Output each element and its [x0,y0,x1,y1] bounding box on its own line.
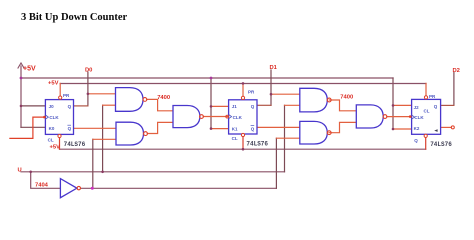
svg-text:3 Bit Up Down Counter: 3 Bit Up Down Counter [21,12,128,23]
svg-text:J1: J1 [232,104,238,109]
wire J2 stub [393,104,412,106]
svg-text:+5V: +5V [23,65,36,72]
wire J0 [21,105,45,107]
wire CL rail y149.2 [60,148,426,150]
svg-text:74LS76: 74LS76 [246,141,268,148]
wire Q1 [257,104,271,106]
wire PR stub FF3 [425,83,427,96]
svg-text:J0: J0 [49,104,55,109]
nand gate stage3 bottom [300,121,331,144]
wire PR rail y83.4 [60,83,426,85]
svg-text:+5V: +5V [48,81,59,87]
wire U vert stage2 [102,105,104,172]
svg-text:K1: K1 [232,126,238,131]
svg-text:PR: PR [63,93,70,98]
wire K0 [21,126,45,128]
wire gate B2 stage3 input [276,137,299,139]
svg-text:K0: K0 [49,126,55,131]
svg-text:7400: 7400 [340,95,353,101]
wire U vert stage3 [284,105,286,172]
wire U rail y171.8 [21,171,285,173]
nand gate stage3 combiner [356,105,387,128]
svg-text:CLK: CLK [49,115,59,120]
node D2 vertical [453,73,455,106]
wire Q0bar [74,127,117,129]
svg-text:Q: Q [68,104,72,109]
svg-text:CL: CL [424,108,430,113]
svg-text:J2: J2 [414,105,420,110]
svg-text:Q: Q [251,126,255,131]
wire Q2bar [441,126,452,128]
flipflop U1 74LS76 [43,93,86,150]
wire nand1 top output [147,99,173,110]
svg-text:Q: Q [414,138,418,143]
wire PR stub FF1 [59,83,61,95]
wire K1 stub [211,128,229,130]
wire JK vert FF2 [210,78,212,129]
wire nand2 top output [329,100,356,111]
svg-text:7400: 7400 [157,95,170,101]
power +5V symbol top-left [18,63,24,127]
svg-text:PR: PR [429,94,436,99]
wire U drop to inverter [31,172,61,189]
wire JK rail y78 [21,77,393,79]
wire CL stub FF3 [425,138,427,150]
wire nand1 low output [147,122,173,133]
wire gate A1 stage3 input [271,93,300,95]
svg-text:7404: 7404 [35,182,49,188]
wire Q0 [74,105,88,107]
svg-text:Q: Q [68,126,72,131]
svg-text:D0: D0 [85,67,92,73]
svg-text:+5V: +5V [50,144,61,150]
svg-text:CLK: CLK [233,115,243,120]
nand gate stage2 top 7400 [116,88,147,112]
svg-text:CL: CL [232,136,238,141]
wire clk3 from combiner [387,116,412,118]
wire clk2 from combiner [203,116,228,118]
wire gate A1 input [88,93,116,95]
svg-text:74LS76: 74LS76 [430,141,452,148]
svg-text:D1: D1 [270,65,278,71]
nand gate stage2 bottom [116,122,147,145]
svg-text:CLK: CLK [414,115,424,120]
svg-text:CL: CL [48,138,54,143]
wire gate B1 input [103,104,116,106]
svg-text:74LS76: 74LS76 [64,141,86,148]
wire CL stub FF1 [59,138,61,150]
svg-text:Q: Q [434,104,438,109]
wire Q2 [441,104,454,106]
pin open circle Q2bar [451,126,454,129]
inverter 7404 [60,179,80,198]
wire Q1bar [257,126,300,128]
wire PR stub FF2 [242,83,244,96]
svg-text:D2: D2 [453,68,460,74]
wire J1 stub [211,105,229,107]
wire Ubar rail y188.3 [81,187,277,189]
wire JK vert FF3 [392,78,394,129]
nand gate stage2 combiner [173,106,203,128]
svg-text:PR: PR [248,90,255,95]
svg-text:K2: K2 [414,126,420,131]
wire Ubar vert stage2 [92,139,94,188]
nand gate stage3 top 7400 [300,88,331,112]
wire gate B2 input [93,138,116,140]
wire gate B1 stage3 input [285,104,300,106]
wire Ubar vert stage3 [275,138,277,188]
wire nand2 low output [329,122,356,132]
node D0 vertical [87,72,89,106]
wire K2 stub [393,128,412,130]
flipflop U2 74LS76 [226,90,269,148]
svg-text:U: U [18,167,22,173]
wire CL stub FF2 [242,137,244,150]
wire CLK input [10,117,45,138]
flipflop U3 74LS76 [409,94,452,148]
node D1 vertical [270,70,272,105]
svg-text:Q: Q [251,104,255,109]
